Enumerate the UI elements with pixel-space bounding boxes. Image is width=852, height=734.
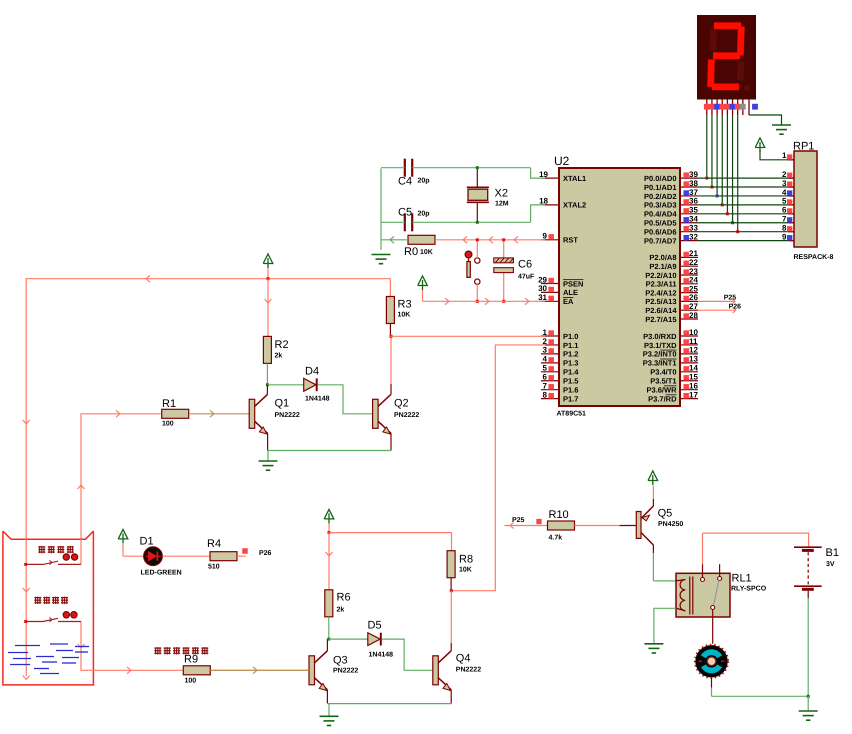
svg-text:P1.7: P1.7 <box>563 394 578 403</box>
svg-text:10K: 10K <box>420 249 433 256</box>
svg-text:23: 23 <box>689 267 698 276</box>
svg-text:P1.0: P1.0 <box>563 332 578 341</box>
svg-text:25: 25 <box>689 284 698 293</box>
svg-text:5: 5 <box>782 197 787 206</box>
svg-text:2k: 2k <box>275 352 283 360</box>
svg-text:7: 7 <box>543 382 548 391</box>
svg-text:RST: RST <box>563 236 578 245</box>
svg-text:P0.1/AD1: P0.1/AD1 <box>644 183 677 192</box>
svg-text:R3: R3 <box>398 299 412 311</box>
svg-text:20p: 20p <box>418 178 430 185</box>
svg-text:Q1: Q1 <box>275 398 290 410</box>
svg-text:17: 17 <box>689 390 698 399</box>
svg-text:29: 29 <box>538 275 547 284</box>
svg-text:D4: D4 <box>305 366 319 378</box>
svg-text:P0.4/AD4: P0.4/AD4 <box>644 210 677 219</box>
svg-text:32: 32 <box>689 232 698 241</box>
svg-text:Q2: Q2 <box>394 398 409 410</box>
svg-text:100: 100 <box>162 421 174 428</box>
svg-text:P1.4: P1.4 <box>563 368 579 377</box>
svg-text:28: 28 <box>689 311 698 320</box>
svg-text:P25: P25 <box>512 517 525 524</box>
svg-text:PN4250: PN4250 <box>658 521 683 528</box>
svg-text:P1.1: P1.1 <box>563 341 578 350</box>
svg-text:U2: U2 <box>554 154 570 168</box>
svg-text:47uF: 47uF <box>518 274 535 281</box>
svg-text:2: 2 <box>782 170 787 179</box>
svg-text:P2.5/A13: P2.5/A13 <box>645 297 676 306</box>
svg-text:21: 21 <box>689 249 698 258</box>
svg-text:38: 38 <box>689 179 698 188</box>
svg-text:8: 8 <box>782 223 787 232</box>
svg-text:R6: R6 <box>337 592 351 604</box>
svg-text:27: 27 <box>689 302 698 311</box>
svg-text:4: 4 <box>782 188 787 197</box>
svg-text:2k: 2k <box>337 606 345 614</box>
svg-text:PN2222: PN2222 <box>456 667 481 674</box>
svg-text:P1.2: P1.2 <box>563 350 578 359</box>
svg-text:P0.3/AD3: P0.3/AD3 <box>644 201 677 210</box>
svg-text:34: 34 <box>689 215 698 224</box>
svg-text:24: 24 <box>689 276 698 285</box>
svg-text:P0.2/AD2: P0.2/AD2 <box>644 192 677 201</box>
svg-text:37: 37 <box>689 188 698 197</box>
svg-text:R8: R8 <box>459 554 473 566</box>
svg-text:P0.6/AD6: P0.6/AD6 <box>644 227 677 236</box>
svg-text:12: 12 <box>689 346 698 355</box>
svg-text:10K: 10K <box>398 312 411 319</box>
svg-text:RL1: RL1 <box>732 573 752 585</box>
svg-text:30: 30 <box>538 284 547 293</box>
svg-text:P0.0/AD0: P0.0/AD0 <box>644 174 677 183</box>
svg-text:P1.6: P1.6 <box>563 386 578 395</box>
svg-text:R9: R9 <box>184 654 198 666</box>
svg-text:D1: D1 <box>140 536 154 548</box>
svg-text:RLY-SPCO: RLY-SPCO <box>731 586 767 593</box>
svg-text:R0: R0 <box>404 246 418 258</box>
svg-text:510: 510 <box>208 564 220 571</box>
svg-text:P2.1/A9: P2.1/A9 <box>649 262 676 271</box>
svg-text:20p: 20p <box>418 211 430 218</box>
svg-text:39: 39 <box>689 170 698 179</box>
svg-text:16: 16 <box>689 382 698 391</box>
svg-text:Q3: Q3 <box>333 654 348 666</box>
svg-text:R2: R2 <box>275 339 289 351</box>
svg-text:P1.5: P1.5 <box>563 377 578 386</box>
svg-text:P2.2/A10: P2.2/A10 <box>645 271 676 280</box>
svg-text:8: 8 <box>543 390 548 399</box>
svg-text:C4: C4 <box>398 176 412 188</box>
svg-text:1: 1 <box>782 151 787 160</box>
svg-text:R10: R10 <box>549 509 569 521</box>
svg-text:XTAL1: XTAL1 <box>563 174 586 183</box>
svg-text:XTAL2: XTAL2 <box>563 201 586 210</box>
svg-text:10: 10 <box>689 328 698 337</box>
svg-text:PN2222: PN2222 <box>394 412 419 419</box>
svg-text:PN2222: PN2222 <box>333 668 358 675</box>
svg-text:11: 11 <box>689 337 698 346</box>
svg-text:ALE: ALE <box>563 288 578 297</box>
svg-text:B1: B1 <box>826 547 839 559</box>
svg-text:3V: 3V <box>826 561 835 568</box>
svg-text:P26: P26 <box>259 550 272 557</box>
svg-text:13: 13 <box>689 355 698 364</box>
svg-text:P26: P26 <box>729 304 742 311</box>
svg-text:4.7k: 4.7k <box>549 534 563 542</box>
svg-text:9: 9 <box>782 232 787 241</box>
svg-text:LED-GREEN: LED-GREEN <box>141 570 182 577</box>
svg-text:AT89C51: AT89C51 <box>557 411 587 418</box>
svg-text:100: 100 <box>185 678 197 685</box>
svg-text:6: 6 <box>782 206 787 215</box>
svg-text:P2.4/A12: P2.4/A12 <box>645 288 676 297</box>
svg-text:EA: EA <box>563 297 574 306</box>
svg-text:P2.3/A11: P2.3/A11 <box>646 280 677 289</box>
svg-text:Q4: Q4 <box>456 653 471 665</box>
svg-text:C6: C6 <box>518 259 532 271</box>
svg-text:P0.7/AD7: P0.7/AD7 <box>644 236 677 245</box>
svg-text:36: 36 <box>689 197 698 206</box>
svg-text:7: 7 <box>782 215 787 224</box>
svg-text:1: 1 <box>543 328 548 337</box>
svg-text:Q5: Q5 <box>658 508 673 520</box>
svg-text:P3.7/RD: P3.7/RD <box>648 394 677 403</box>
svg-text:5: 5 <box>543 364 548 373</box>
svg-text:26: 26 <box>689 293 698 302</box>
svg-text:33: 33 <box>689 223 698 232</box>
svg-text:C5: C5 <box>398 207 412 219</box>
svg-text:D5: D5 <box>368 620 382 632</box>
svg-text:R4: R4 <box>207 538 221 550</box>
svg-text:PN2222: PN2222 <box>275 412 300 419</box>
svg-text:15: 15 <box>689 373 698 382</box>
svg-text:P0.5/AD5: P0.5/AD5 <box>644 219 677 228</box>
svg-text:P2.0/A8: P2.0/A8 <box>649 253 676 262</box>
svg-text:P3.6/WR: P3.6/WR <box>646 386 677 395</box>
svg-text:X2: X2 <box>495 188 508 200</box>
svg-text:4: 4 <box>543 355 548 364</box>
svg-text:P3.1/TXD: P3.1/TXD <box>644 341 677 350</box>
svg-text:12M: 12M <box>495 201 509 208</box>
svg-text:R1: R1 <box>162 398 176 410</box>
svg-text:14: 14 <box>689 364 698 373</box>
svg-text:PSEN: PSEN <box>563 279 583 288</box>
svg-text:P3.3/INT1: P3.3/INT1 <box>643 359 677 368</box>
svg-text:P1.3: P1.3 <box>563 359 578 368</box>
svg-text:35: 35 <box>689 206 698 215</box>
svg-text:RESPACK-8: RESPACK-8 <box>794 254 834 261</box>
svg-text:P3.0/RXD: P3.0/RXD <box>643 332 677 341</box>
svg-text:P3.5/T1: P3.5/T1 <box>650 377 676 386</box>
svg-text:P2.7/A15: P2.7/A15 <box>645 315 676 324</box>
svg-text:3: 3 <box>543 346 548 355</box>
svg-text:3: 3 <box>782 179 787 188</box>
svg-text:1N4148: 1N4148 <box>305 396 330 403</box>
svg-text:P2.6/A14: P2.6/A14 <box>645 306 677 315</box>
svg-text:10K: 10K <box>459 567 472 574</box>
svg-text:P25: P25 <box>724 295 737 302</box>
svg-text:P3.4/T0: P3.4/T0 <box>650 368 676 377</box>
svg-text:22: 22 <box>689 258 698 267</box>
svg-text:6: 6 <box>543 373 548 382</box>
svg-text:RP1: RP1 <box>793 141 814 153</box>
svg-text:P3.2/INT0: P3.2/INT0 <box>643 350 677 359</box>
svg-text:1N4148: 1N4148 <box>369 652 394 659</box>
